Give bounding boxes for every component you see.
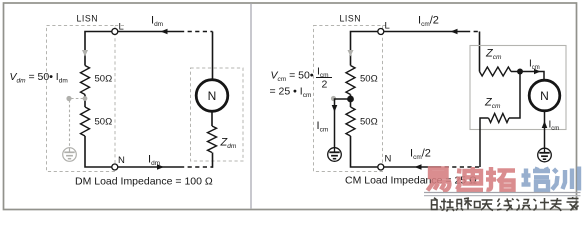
current arrow Idm on bottom rail (left circuit) xyxy=(157,164,164,170)
watermark small char 计 xyxy=(534,198,550,211)
resistor 50ohm upper (left LISN) xyxy=(81,66,90,95)
wire between resistors (left LISN) xyxy=(84,95,86,108)
wire: junction to ground (right circuit) xyxy=(335,99,351,148)
resistor 50ohm upper (right LISN) xyxy=(346,66,355,95)
wire: LISN lower wire to bottom rail (right) xyxy=(351,136,438,167)
wire: top rail solid (left circuit) xyxy=(85,32,180,66)
wire: lower Zcm to bottom rail xyxy=(480,118,489,167)
faded Icm arrow on LISN wire (left circuit) xyxy=(82,50,88,57)
wire: junction down to lower Zcm xyxy=(509,72,520,119)
panel divider line xyxy=(250,4,252,209)
wire: junction to noise source with Icm arrow xyxy=(520,72,544,82)
node N (left circuit) xyxy=(112,164,118,170)
wire: top rail solid (right circuit) xyxy=(351,32,467,66)
watermark char yi xyxy=(428,169,450,192)
earth ground symbol (below noise source) xyxy=(538,148,552,162)
current arrow Icm/2 on bottom rail (right circuit) xyxy=(415,164,422,170)
current arrow Icm up into noise source xyxy=(542,121,548,128)
watermark char pei xyxy=(522,167,551,190)
wire between resistors (right LISN) xyxy=(350,95,352,108)
impedance Zcm lower resistor xyxy=(489,114,510,123)
faded ground branch: junction dot (left circuit) xyxy=(83,96,88,101)
wire: top rail dashed segment (left circuit) xyxy=(180,31,213,33)
faded ground branch wires (left circuit) xyxy=(71,98,84,100)
ground branch (right circuit): gray remnant dot xyxy=(331,96,336,101)
wire: right branch down into Zcm box xyxy=(479,32,481,72)
node L (right circuit) xyxy=(378,29,384,35)
impedance Zdm resistor xyxy=(208,126,217,153)
watermark small char 天 xyxy=(481,200,493,211)
resistor 50ohm lower (right LISN) xyxy=(346,107,355,136)
watermark double underline xyxy=(424,192,581,194)
wire: bottom rail dashed segment (right circuit) xyxy=(437,166,480,168)
wire: upper Zcm to junction xyxy=(511,71,520,73)
current arrow Idm on top rail (left circuit) xyxy=(161,29,168,35)
LISN box top-edge dashed extension (right) xyxy=(383,25,389,27)
svg-text:N: N xyxy=(540,89,549,103)
svg-text:50Ω: 50Ω xyxy=(360,74,378,85)
LISN box top-edge dashed extension (left) xyxy=(115,25,124,27)
watermark small char 家 xyxy=(567,197,579,211)
watermark small char 频 xyxy=(447,199,464,212)
wire: LISN lower wire to bottom rail (left) xyxy=(85,136,180,167)
svg-text:N: N xyxy=(118,155,125,166)
svg-text:N: N xyxy=(385,154,392,165)
watermark small char 专 xyxy=(550,198,562,211)
svg-text:N: N xyxy=(208,89,217,103)
wire: noise source down to ground (right) xyxy=(544,111,546,148)
EUT box around Zcm network (right circuit) xyxy=(470,46,566,130)
noise source N circle (left circuit) xyxy=(196,80,228,112)
svg-text:DM Load Impedance = 100 Ω: DM Load Impedance = 100 Ω xyxy=(75,176,213,188)
svg-text:50Ω: 50Ω xyxy=(95,117,113,128)
node L (left circuit) xyxy=(112,29,118,35)
noise source N circle (right circuit) xyxy=(529,80,560,111)
svg-text:50Ω: 50Ω xyxy=(95,74,113,85)
svg-text:Vcm = 50•: Vcm = 50• xyxy=(271,70,314,84)
wire: bottom rail dashed segment (left circuit) xyxy=(180,166,213,168)
current arrow Icm down to ground (right circuit) xyxy=(332,105,338,112)
junction dot between LISN resistors (right circuit) xyxy=(347,96,354,103)
watermark logo big characters xyxy=(428,167,580,192)
svg-text:L: L xyxy=(119,22,124,33)
LISN dashed box (right) xyxy=(314,26,383,172)
watermark char xun xyxy=(552,167,579,191)
watermark char tuo xyxy=(486,167,515,191)
wire: Zdm to bottom rail xyxy=(212,153,214,168)
svg-text:LISN: LISN xyxy=(340,14,362,24)
faded earth ground symbol (left circuit) xyxy=(63,148,77,162)
svg-text:2: 2 xyxy=(322,79,328,91)
EUT dashed box around noise source (left) xyxy=(191,68,244,161)
LISN dashed box (left) xyxy=(47,26,116,172)
faded Icm arrow on LISN wire (right circuit) xyxy=(348,50,354,57)
svg-text:LISN: LISN xyxy=(77,14,99,24)
node N (right circuit) xyxy=(378,164,384,170)
wire: right branch down to noise source (left circuit) xyxy=(212,32,214,80)
watermark small char 线 xyxy=(497,199,514,212)
watermark small char 设 xyxy=(517,199,531,211)
watermark small char 和 xyxy=(464,198,480,210)
svg-text:50Ω: 50Ω xyxy=(360,117,378,128)
watermark char di xyxy=(457,167,484,190)
watermark small char 射 xyxy=(432,198,447,210)
earth ground symbol (right LISN) xyxy=(328,148,342,162)
current arrow Icm/2 on top rail (right circuit) xyxy=(451,29,458,35)
junction dot in Zcm network xyxy=(517,69,523,75)
impedance Zcm upper resistor xyxy=(480,67,511,76)
wire: noise source to Zdm (left circuit) xyxy=(211,111,213,126)
resistor 50ohm lower (left LISN) xyxy=(81,107,90,136)
svg-text:L: L xyxy=(385,21,390,32)
wire: top rail dashed segment (right circuit) xyxy=(466,31,480,33)
